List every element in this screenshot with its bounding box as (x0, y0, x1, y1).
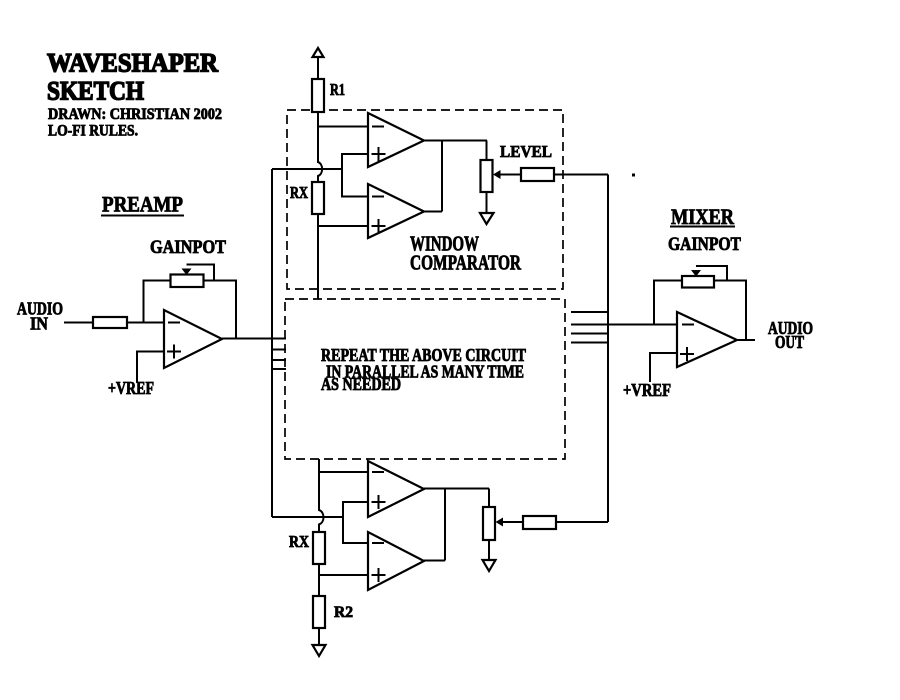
svg-text:WAVESHAPER: WAVESHAPER (47, 49, 218, 78)
svg-text:LEVEL: LEVEL (500, 142, 552, 161)
stray dot (632, 174, 635, 177)
op-amp U2 (upper comparator) (368, 113, 424, 167)
wire U6 output (737, 339, 755, 341)
op-amp U1 (preamp) (164, 310, 222, 368)
wire P2 right to U6 output (714, 281, 746, 341)
LEVEL wiper arrow (493, 170, 521, 179)
svg-text:SKETCH: SKETCH (47, 77, 144, 106)
left distribution bus (271, 169, 273, 517)
op-amp U4 (upper comparator, lower bank) (368, 461, 424, 517)
potentiometer P2 GAINPOT body (682, 276, 714, 288)
wire U5 output (424, 560, 445, 562)
left repeat stubs (272, 350, 286, 370)
svg-text:LO-FI RULES.: LO-FI RULES. (48, 123, 138, 140)
wire R2 to down arrow (318, 628, 320, 645)
-V down arrow (313, 645, 326, 656)
signal wire bottom from left bus to bracket (272, 516, 343, 518)
wire divider from repeat box with crossover jog (319, 459, 324, 532)
svg-text:GAINPOT: GAINPOT (668, 234, 741, 255)
wire divider tap to U2 inverting input (318, 126, 368, 128)
svg-text:AS NEEDED: AS NEEDED (321, 374, 401, 394)
op-amp U6 (mixer) (677, 312, 737, 367)
svg-text:RX: RX (289, 532, 310, 551)
wire divider tap to U4 inverting input (319, 471, 368, 473)
resistor RX (upper) (312, 182, 324, 214)
svg-text:OUT: OUT (775, 332, 804, 352)
dashed box window comparator (287, 110, 563, 289)
op-amp U3 (lower comparator) (368, 184, 424, 238)
wire +VREF to U1 non-inverting input (137, 352, 165, 383)
wire +VREF to U6 non-inverting input (650, 353, 678, 382)
input bracket wire U4+/U5- (343, 502, 368, 543)
right summing bus (607, 175, 609, 523)
wire P1 right to U1 output (204, 281, 237, 339)
lower wiper arrow (496, 518, 524, 527)
wire to LEVEL pot top (486, 141, 488, 161)
label AUDIO IN (17, 299, 63, 334)
ground arrow below lower pot (483, 540, 496, 571)
input bracket wire U2+/U3- (342, 154, 368, 197)
label MIXER heading (670, 204, 735, 229)
wire joining comparator outputs (441, 141, 443, 212)
wire R1 to RX with crossover jog (318, 112, 322, 182)
svg-text:MIXER: MIXER (671, 204, 735, 229)
potentiometer P1 GAINPOT body (171, 275, 204, 288)
svg-text:+VREF: +VREF (108, 378, 154, 398)
potentiometer LEVEL (upper) body (481, 160, 493, 192)
signal wire from left bus to bracket (272, 168, 342, 170)
wire U1 output to left bus (222, 338, 286, 340)
svg-text:DRAWN: CHRISTIAN 2002: DRAWN: CHRISTIAN 2002 (48, 106, 222, 123)
wire U1 feedback left leg (144, 281, 171, 323)
dashed box repeat (285, 299, 565, 459)
wire lower level resistor to right bus (556, 521, 608, 523)
wire Rin to U1 inverting input (127, 322, 165, 324)
svg-text:R1: R1 (330, 80, 345, 99)
svg-text:R2: R2 (334, 604, 353, 621)
wire to lower pot top (488, 489, 490, 508)
op-amp U5 (lower comparator, lower bank) (368, 532, 424, 590)
ground arrow below LEVEL pot (480, 192, 494, 224)
potentiometer (lower level) body (483, 507, 495, 540)
wire level resistor to right bus (554, 174, 608, 176)
wire U3 output (424, 211, 442, 213)
label PREAMP heading (101, 192, 184, 217)
resistor RX (lower) (313, 532, 325, 564)
wire below RX lower (318, 564, 320, 596)
label AUDIO OUT (768, 318, 813, 352)
wire divider below RX to repeat box (317, 214, 319, 299)
label WINDOW COMPARATOR (410, 232, 522, 275)
resistor Rin (input series) (93, 317, 127, 328)
resistor R2 (313, 596, 325, 628)
wire U6 feedback left leg (654, 281, 682, 325)
resistor (lower level out) (523, 516, 556, 529)
svg-text:RX: RX (290, 183, 308, 202)
potentiometer P1 wiper arm (182, 265, 215, 281)
wire U4 output (424, 488, 489, 490)
svg-text:PREAMP: PREAMP (102, 192, 183, 217)
wire joining lower outputs (444, 489, 446, 561)
title WAVESHAPER SKETCH (47, 49, 218, 106)
svg-text:COMPARATOR: COMPARATOR (410, 251, 522, 275)
svg-text:+VREF: +VREF (623, 380, 671, 400)
wire audio-in to Rin (64, 322, 93, 324)
wire divider tap to U5 non-inverting input (319, 574, 368, 576)
label repeat text (321, 345, 526, 394)
right repeat stubs (571, 312, 608, 343)
wire bus to U6 inverting input (571, 324, 678, 326)
svg-text:IN: IN (30, 314, 48, 334)
+V up arrow (313, 48, 324, 79)
wire U2 output (424, 140, 487, 142)
resistor (upper level out) (521, 168, 554, 181)
svg-text:GAINPOT: GAINPOT (150, 237, 226, 258)
wire divider tap to U3 non-inverting input (318, 225, 368, 227)
potentiometer P2 wiper arm (691, 266, 727, 281)
resistor R1 (312, 79, 324, 112)
